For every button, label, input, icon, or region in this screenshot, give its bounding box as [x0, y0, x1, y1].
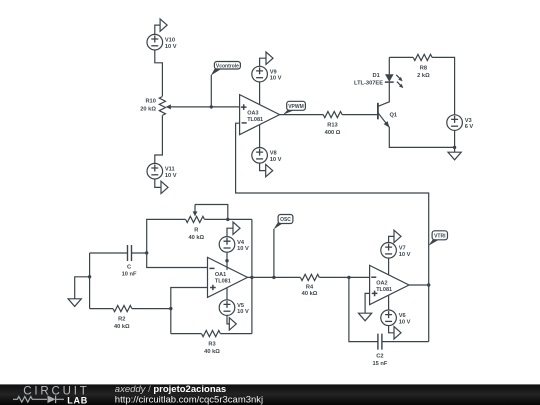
resistor R4 40k: [300, 274, 369, 297]
svg-text:40 kΩ: 40 kΩ: [204, 349, 220, 355]
voltage source V8: [252, 148, 282, 164]
svg-text:20 kΩ: 20 kΩ: [140, 107, 156, 113]
svg-text:6 V: 6 V: [465, 124, 474, 130]
svg-text:R2: R2: [118, 316, 125, 322]
svg-text:VPWM: VPWM: [288, 104, 304, 110]
svg-text:TL081: TL081: [376, 287, 392, 293]
svg-text:10 V: 10 V: [165, 173, 177, 179]
voltage source V9: [252, 66, 282, 82]
svg-text:V7: V7: [399, 246, 406, 252]
wire OA2 non-inverting input to ground: [365, 293, 370, 313]
junction dot OA1 output: [250, 276, 253, 279]
svg-text:V8: V8: [270, 151, 277, 157]
svg-text:40 kΩ: 40 kΩ: [302, 291, 318, 297]
wire down to C2: [349, 277, 378, 341]
wire OA3 output to R13: [280, 114, 324, 116]
svg-text:10 V: 10 V: [165, 44, 177, 50]
svg-text:R3: R3: [208, 342, 215, 348]
wire OA2 V- pin: [388, 295, 390, 310]
svg-text:LAB: LAB: [67, 395, 88, 405]
CircuitLab logo: [13, 386, 90, 405]
resistor R8 2k: [413, 54, 432, 79]
junction dot Vcontrole tap: [210, 105, 213, 108]
ground (right): [448, 152, 461, 160]
svg-text:Q1: Q1: [390, 113, 398, 119]
transistor Q1 NPN: [378, 82, 455, 147]
footer credit text: [115, 384, 263, 405]
wire OA1 V+ pin: [226, 252, 228, 270]
svg-text:Vcontrole: Vcontrole: [216, 63, 239, 69]
junction dot emitter/V3: [453, 146, 456, 149]
wire R13 to Q1 base: [342, 114, 378, 116]
wire R left to OA1 inverting input: [147, 219, 208, 267]
junction dot ground branch: [88, 275, 91, 278]
wire OA2 V+ pin: [388, 258, 390, 275]
wire V3 to ground: [454, 130, 456, 152]
capacitor C2 15nF: [372, 334, 428, 367]
svg-text:10 nF: 10 nF: [122, 271, 137, 277]
node OSC flag: [274, 215, 293, 278]
wire OA2 output: [409, 284, 429, 286]
wire OA1 V- pin: [226, 288, 228, 300]
svg-text:10 V: 10 V: [399, 252, 411, 258]
power flag at V9 top: [260, 52, 273, 66]
resistor R3 40k: [171, 331, 252, 356]
svg-text:V10: V10: [165, 38, 175, 44]
wire C2 up to output node: [428, 285, 430, 342]
voltage source V3: [447, 115, 474, 131]
junction dot R4/C2: [347, 276, 350, 279]
svg-text:40 kΩ: 40 kΩ: [114, 324, 130, 330]
potentiometer R 40k: [186, 205, 228, 242]
wire OA3 V- pin: [259, 125, 261, 148]
power flag at V11 bottom: [155, 179, 168, 194]
voltage source V10: [147, 34, 177, 50]
junction dot R2/R3: [169, 307, 172, 310]
wire R10 to V11: [155, 115, 163, 163]
svg-text:OA2: OA2: [376, 280, 387, 286]
voltage source V5: [219, 300, 249, 316]
voltage source V11: [147, 163, 177, 179]
svg-text:V9: V9: [270, 70, 277, 76]
svg-text:OSC: OSC: [280, 217, 291, 223]
svg-text:10 V: 10 V: [270, 157, 282, 163]
wire OA1 non-inverting input to R3: [171, 288, 208, 334]
wire V10 to R10: [155, 50, 163, 96]
wire R right to output node: [205, 218, 252, 220]
power flag at V6 bottom: [389, 326, 401, 339]
wire OA3 inverting input feedback to VTRI node: [236, 123, 429, 285]
svg-text:15 nF: 15 nF: [372, 361, 387, 367]
svg-text:OA3: OA3: [247, 111, 258, 117]
power flag at V4 top: [227, 222, 240, 237]
junction dot V4 pin: [225, 259, 228, 262]
wire OA1 output to R4: [248, 276, 301, 278]
power flag at V5 bottom: [227, 315, 236, 330]
svg-text:TL081: TL081: [215, 279, 231, 285]
wire to ground (left): [75, 277, 90, 299]
svg-text:V5: V5: [237, 303, 244, 309]
svg-text:V4: V4: [237, 240, 245, 246]
ground (OA2): [359, 313, 372, 321]
svg-text:10 V: 10 V: [270, 76, 282, 82]
wire feedback vertical at output: [251, 219, 253, 333]
power flag at V8 bottom: [260, 163, 273, 177]
junction dot OA2 output: [427, 283, 430, 286]
svg-text:V11: V11: [165, 167, 175, 173]
svg-text:R4: R4: [306, 284, 314, 290]
svg-text:C: C: [127, 265, 131, 271]
voltage source V7: [381, 243, 411, 259]
LED D1 LTL-307EE: [354, 57, 403, 88]
node Vcontrole flag: [211, 62, 241, 107]
wire C left down to R2: [89, 253, 91, 309]
wire R8 to V3: [432, 57, 455, 114]
resistor R2 40k: [90, 306, 171, 331]
svg-text:400 Ω: 400 Ω: [325, 130, 341, 136]
voltage source V4: [219, 237, 249, 253]
svg-text:LTL-307EE: LTL-307EE: [354, 81, 383, 87]
power flag at V7 top: [389, 230, 401, 242]
svg-text:R: R: [194, 228, 198, 234]
svg-text:VTRI: VTRI: [434, 234, 446, 240]
svg-text:axeddy / projeto2acionas: axeddy / projeto2acionas: [115, 384, 226, 395]
svg-text:10 V: 10 V: [237, 309, 249, 315]
potentiometer R10 20k: [140, 97, 239, 116]
wire OA3 V+ pin: [259, 82, 261, 105]
svg-text:R13: R13: [327, 123, 337, 129]
junction dot OSC tap: [272, 276, 275, 279]
svg-text:C2: C2: [376, 354, 383, 360]
svg-text:2 kΩ: 2 kΩ: [417, 73, 430, 79]
svg-text:OA1: OA1: [215, 272, 226, 278]
svg-text:TL081: TL081: [247, 117, 263, 123]
voltage source V6: [381, 310, 411, 326]
capacitor C 10nF: [90, 245, 147, 277]
op-amp OA2 TL081: [370, 265, 409, 304]
svg-text:R8: R8: [420, 65, 427, 71]
op-amp OA1 TL081: [208, 257, 248, 297]
svg-text:10 V: 10 V: [399, 319, 411, 325]
svg-text:V3: V3: [465, 118, 472, 124]
node VPWM flag: [283, 101, 306, 115]
op-amp OA3 TL081: [240, 95, 280, 135]
svg-text:D1: D1: [373, 73, 380, 79]
junction dot R/wiper: [226, 218, 229, 221]
resistor R13 400 ohm: [323, 112, 342, 137]
ground (left): [68, 299, 81, 307]
svg-text:10 V: 10 V: [237, 246, 249, 252]
power flag at V10 top: [155, 19, 167, 35]
svg-text:http://circuitlab.com/cqc5r3ca: http://circuitlab.com/cqc5r3cam3nkj: [115, 395, 263, 405]
svg-text:40 kΩ: 40 kΩ: [188, 235, 204, 241]
node VTRI flag: [428, 231, 447, 246]
junction dot C right: [145, 251, 148, 254]
svg-text:R10: R10: [145, 99, 155, 105]
svg-text:V6: V6: [399, 313, 406, 319]
wire D1 to R8: [389, 56, 413, 58]
